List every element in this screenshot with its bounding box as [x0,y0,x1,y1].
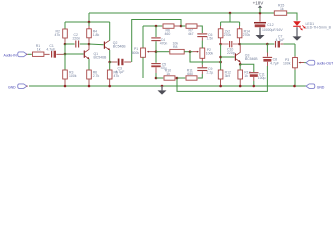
node junction x177 y78 [176,77,179,80]
transistor Q2 [104,40,126,50]
potentiometer P3 [283,56,306,85]
wire corner down to C6 [200,26,202,33]
svg-text:47k: 47k [114,74,120,78]
svg-text:R8: R8 [173,45,177,49]
wire x65 down to R3 [64,54,66,70]
wire Q2 collector riser [109,22,111,41]
capacitor C11 [249,73,265,85]
svg-text:4k7: 4k7 [188,32,194,36]
wire Q2 base [89,43,104,46]
svg-text:470n: 470n [160,41,168,45]
svg-text:C12: C12 [267,23,273,27]
svg-text:BC546B: BC546B [245,57,259,61]
node junction x220.6 y62 [219,61,222,64]
svg-text:GND: GND [8,85,16,89]
svg-text:270k: 270k [243,33,251,37]
svg-text:100k: 100k [206,52,214,56]
svg-text:1.8k: 1.8k [93,33,100,37]
resistor R12 [218,70,231,85]
node junction x294.5 y86 [293,85,296,88]
ground under LED [293,27,302,40]
capacitor C3 [116,59,132,75]
svg-text:Audio-IN: Audio-IN [4,53,18,57]
node junction x109.7 y62 [108,61,111,64]
wire sub-rail y22 [65,21,110,23]
node junction x181 y26 [180,25,183,28]
svg-text:audio-OUT: audio-OUT [317,62,333,66]
node junction x253.8 y86 [253,85,256,88]
wire P2 wiper node riser down / y62 row [190,52,221,62]
wire wiper row y51.7 [156,51,169,53]
svg-text:10000µF/16V: 10000µF/16V [262,28,283,32]
svg-text:500k: 500k [132,51,140,55]
node junction x220.6 y86 [219,85,222,88]
wire to C3 [110,61,112,63]
svg-text:+18V: +18V [253,1,264,6]
node junction x65 y54 [64,53,67,56]
node junction x89 y44 [88,43,91,46]
connector audio-OUT [306,60,333,65]
resistor R13 [238,64,251,85]
transistor Q3 [235,45,258,65]
wire y26 row [143,25,162,27]
svg-text:220n: 220n [73,36,81,40]
svg-text:BC546B: BC546B [113,45,127,49]
node junction x65 y86 [64,85,67,88]
ground under C12 [256,27,265,39]
potentiometer P1 [132,26,156,78]
svg-text:100µ: 100µ [258,76,266,80]
power +18V [253,1,264,13]
svg-text:1k: 1k [244,74,248,78]
svg-text:460: 460 [165,32,171,36]
svg-text:4.7µF: 4.7µF [270,61,279,65]
node junction x89 y86 [88,85,91,88]
resistor R9 (bias left) [218,26,231,43]
wire x65 down to input row [64,44,66,54]
svg-text:1k: 1k [37,48,41,52]
LED LED1 [293,21,331,30]
svg-text:680: 680 [187,72,193,76]
svg-text:1k: 1k [166,72,170,76]
node junction x109.7 y86 [108,85,111,88]
wire +18V rail y13 [89,12,297,14]
node junction x156 y51.7 [155,50,158,53]
potentiometer P2 [190,41,213,65]
resistor R14 (bias right) [237,26,250,43]
wire Q3 base [221,56,235,58]
wire R8 to P2 wiper node [184,51,190,53]
node junction x65 y44 [64,43,67,46]
node junction x156 y26 [155,25,158,28]
connector Audio-IN [4,52,32,58]
node junction x220.6 y57 [219,56,222,59]
svg-text:3k9: 3k9 [225,74,231,78]
resistor R10 [164,68,177,80]
svg-text:100k: 100k [69,74,77,78]
capacitor C10 [221,41,240,55]
resistor R15 [274,4,286,16]
wire C8 feedback riser + y91.4 run + riser x177 [177,66,267,91]
resistor R8 [170,42,184,54]
resistor R4 [87,22,100,43]
resistor R6h [163,24,180,36]
node junction x89 y22 [88,21,91,24]
capacitor C9 [197,65,213,78]
resistor R1 [33,44,50,56]
wire emitter node to C11 [240,64,254,72]
node junction x240.2 y64.3 [239,63,242,66]
svg-text:2.7k: 2.7k [93,74,100,78]
capacitor C2 [73,33,81,48]
svg-text:BC546B: BC546B [94,55,108,59]
svg-text:47k: 47k [55,33,61,37]
wire C3 riser and bridge y19.5 [132,20,181,63]
svg-text:GND: GND [317,85,325,89]
wire base of Q1 [65,53,84,55]
resistor R6 (Q1 emitter) [87,70,100,85]
resistor R11 [177,68,197,80]
wire y44 corner down to P3 [294,44,296,56]
wire C2 row y44 [65,43,75,45]
wire y44 to C8 node [240,43,268,45]
capacitor C1 [46,44,65,58]
resistor R5 [107,62,119,85]
capacitor C8 [263,44,279,66]
node junction x162 y86 [161,85,164,88]
wire x220.6 down [220,44,222,70]
capacitor C4 [151,26,167,52]
node junction x220.6 y44 [219,43,222,46]
wire rail corner down to LED [296,13,298,21]
svg-text:220p: 220p [227,51,235,55]
node junction x240.2 y86 [239,85,242,88]
node junction x239.6 y44 [238,43,241,46]
wire y78 row [156,77,163,79]
node junction x260 y13 [259,12,262,15]
connector GND (output) [306,84,325,89]
resistor R7 [181,24,200,36]
svg-text:2.2µ: 2.2µ [207,71,214,75]
resistor R2 [55,22,68,43]
wire ground rail y86 [29,85,306,87]
capacitor C6 [197,33,213,41]
svg-text:LED-TH-5mm_B: LED-TH-5mm_B [306,25,332,29]
node junction x267.4 y44 [266,43,269,46]
wire rail drop x89 to sub-rail [88,13,90,22]
capacitor C5 [151,52,166,78]
capacitor C7 [267,35,295,48]
svg-text:4.7µF: 4.7µF [46,48,55,52]
ground symbol on rail [158,86,167,95]
capacitor C12 [254,14,283,32]
svg-text:1k: 1k [280,7,284,11]
connector GND (input) [8,84,28,90]
svg-text:100k: 100k [283,62,291,66]
transistor Q1 [84,45,107,71]
wire C2 to node x89 [80,43,89,45]
svg-text:270k: 270k [224,33,232,37]
resistor R3 [63,70,77,85]
svg-text:1.5n: 1.5n [207,37,214,41]
node junction x156 y78 [155,77,158,80]
node junction rail x230 [229,12,232,15]
wire Q2 emitter down [109,50,111,62]
wire bias tee [229,13,231,22]
node junction x190 y51.7 [189,50,192,53]
svg-text:4.7µF: 4.7µF [276,38,285,42]
